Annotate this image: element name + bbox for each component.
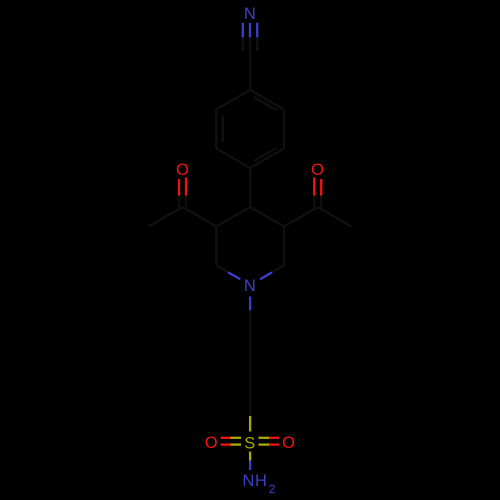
svg-text:O: O — [282, 434, 295, 452]
svg-text:2: 2 — [269, 482, 276, 496]
svg-text:N: N — [242, 472, 254, 490]
svg-text:N: N — [244, 277, 256, 295]
svg-text:S: S — [244, 434, 255, 452]
svg-text:O: O — [205, 434, 218, 452]
svg-text:H: H — [255, 472, 267, 490]
svg-text:O: O — [311, 161, 324, 179]
svg-text:O: O — [176, 161, 189, 179]
svg-text:N: N — [244, 5, 256, 23]
